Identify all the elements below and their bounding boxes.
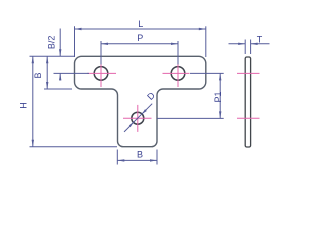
- dimension B bottom extension lines: [116, 150, 118, 165]
- svg-text:D: D: [145, 90, 157, 102]
- hole right centerlines: [163, 61, 190, 88]
- hole left centerlines: [87, 61, 116, 88]
- side view thin plate: [245, 57, 250, 147]
- svg-text:H: H: [18, 102, 28, 109]
- svg-text:B: B: [33, 72, 43, 78]
- dimension D leader diagonal: [124, 104, 152, 132]
- dimension P extension lines: [100, 41, 102, 65]
- dimension L line: [75, 28, 206, 30]
- hole right: [171, 67, 185, 81]
- dimension B bottom line: [117, 159, 157, 161]
- svg-text:T: T: [257, 35, 263, 45]
- plate outline (T-shaped flat bracket, front view): [75, 56, 206, 146]
- dimension B/2 lines: [59, 29, 61, 57]
- svg-text:L: L: [138, 19, 143, 29]
- dimension P1 line: [219, 73, 221, 118]
- hole left: [94, 67, 108, 81]
- hole leg centerlines: [123, 105, 152, 132]
- dimension B left line: [46, 56, 48, 89]
- dimension P1 extension lines: [190, 72, 224, 74]
- svg-text:B: B: [137, 149, 143, 159]
- svg-text:B/2: B/2: [47, 36, 57, 50]
- dimension B/2 extension line: [54, 72, 90, 74]
- dimension T lines: [229, 43, 246, 45]
- dimension B left extension line: [44, 88, 72, 90]
- side view centerline top: [237, 72, 260, 74]
- svg-text:P: P: [137, 33, 143, 43]
- hole leg: [132, 112, 144, 124]
- dimension H line: [32, 56, 34, 146]
- dimension L extension lines: [74, 26, 76, 57]
- svg-text:P1: P1: [213, 91, 223, 102]
- dimension T extension lines: [244, 40, 246, 55]
- dimension H extension lines: [30, 55, 75, 57]
- dimension P line: [101, 43, 178, 45]
- side view centerline bottom: [237, 117, 260, 119]
